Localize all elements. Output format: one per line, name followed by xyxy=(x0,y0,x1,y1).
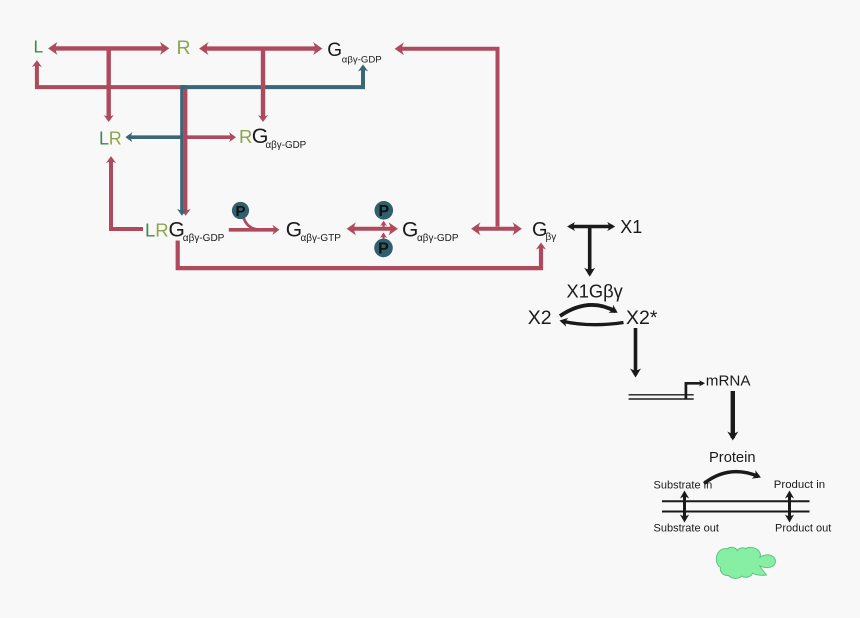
node: X1 xyxy=(620,217,642,237)
wire: small arrow from lower P xyxy=(382,234,384,238)
wire: black double arrow Gbg to X1 xyxy=(570,225,613,229)
wire: curved arrow X2 to X2* xyxy=(560,305,616,316)
svg-text:αβγ-GTP: αβγ-GTP xyxy=(301,233,342,244)
wire: curved arrow X2* to X2 xyxy=(562,321,624,325)
wire: red bottom path LRG to G-bg xyxy=(178,241,541,269)
svg-text:Protein: Protein xyxy=(709,450,756,466)
svg-text:P: P xyxy=(378,203,389,220)
svg-text:L: L xyxy=(99,129,109,149)
node: X1Gbg xyxy=(567,281,624,302)
svg-text:L: L xyxy=(145,220,155,241)
wire: small arrow to upper P xyxy=(383,223,385,229)
node: Protein xyxy=(709,450,756,466)
node: phosphate P3 lower xyxy=(374,239,393,258)
wire: curved arrow Substrate in to Product in xyxy=(704,472,759,484)
svg-text:mRNA: mRNA xyxy=(706,373,752,390)
node: X2* xyxy=(626,307,658,329)
node: LR xyxy=(99,129,122,149)
node: G-bg xyxy=(532,219,556,243)
node: LRG-abg-GDP xyxy=(145,219,225,244)
node: mRNA xyxy=(706,373,752,390)
wire: black vertical down to X1Gbg xyxy=(588,228,592,274)
svg-text:αβγ-GDP: αβγ-GDP xyxy=(417,233,459,244)
svg-text:αβγ-GDP: αβγ-GDP xyxy=(266,140,307,151)
svg-text:αβγ-GDP: αβγ-GDP xyxy=(342,54,382,65)
svg-text:R: R xyxy=(239,126,252,147)
wire: double arrow GDP to Gbg xyxy=(475,227,519,231)
wire: red vertical beside teal down to LRG xyxy=(184,87,188,213)
node: G-abg-GDP middle xyxy=(402,219,459,245)
node: phosphate P2 upper xyxy=(375,201,394,220)
node: G-abg-GTP xyxy=(286,219,341,245)
svg-text:P: P xyxy=(235,203,245,220)
node: Product in xyxy=(774,479,825,491)
wire: double arrow GTP to GDP xyxy=(350,227,395,231)
wire: substrate transport double arrow xyxy=(683,493,686,520)
svg-text:R: R xyxy=(109,129,122,149)
svg-text:P: P xyxy=(378,241,389,258)
wire: red vertical from R-G arrow down to RG xyxy=(261,50,265,120)
svg-text:X1Gβγ: X1Gβγ xyxy=(567,281,624,302)
node: gene double line xyxy=(629,395,694,399)
wire: arrow LRG to G-abg-GTP xyxy=(229,228,277,232)
wire: red elbow from LRG up to LR xyxy=(111,159,143,229)
node: Substrate in xyxy=(654,480,713,492)
svg-text:Substrate in: Substrate in xyxy=(654,480,713,492)
svg-text:Substrate out: Substrate out xyxy=(654,523,719,535)
svg-text:R: R xyxy=(155,220,168,241)
wire: double arrow R to G xyxy=(203,46,320,50)
wire: promoter bent arrow to mRNA xyxy=(686,383,703,399)
node: G-abg-GDP top xyxy=(327,40,381,66)
svg-text:R: R xyxy=(177,37,191,59)
wire: double arrow L to R xyxy=(52,46,166,50)
node: phosphate P1 xyxy=(232,202,249,220)
svg-text:X2: X2 xyxy=(528,307,552,329)
svg-text:βγ: βγ xyxy=(546,232,557,243)
wire: teal vertical arrow down to LRG xyxy=(180,85,184,213)
svg-text:G: G xyxy=(402,219,418,242)
wire: red vertical from L-R arrow down to LR xyxy=(106,50,110,120)
wire: curved link from P to GTP arrow xyxy=(244,218,262,230)
svg-text:Product out: Product out xyxy=(775,523,831,535)
wire: product transport double arrow xyxy=(788,493,791,520)
svg-text:Product in: Product in xyxy=(774,479,825,491)
svg-text:αβγ-GDP: αβγ-GDP xyxy=(183,233,225,244)
wire: red elbow from right down to GDP-Gbg arrow xyxy=(398,49,498,227)
wire: red arrow right into RG xyxy=(183,135,234,139)
node: X2 xyxy=(528,307,552,329)
svg-text:L: L xyxy=(34,37,44,57)
wire: black arrow X2* down to gene xyxy=(634,328,638,375)
wire: black arrow mRNA to Protein xyxy=(731,391,735,438)
node: Product out xyxy=(775,523,831,535)
svg-text:X2*: X2* xyxy=(626,307,658,329)
node: membrane double line xyxy=(662,501,810,511)
wire: teal arrow left into LR xyxy=(128,135,183,139)
svg-text:X1: X1 xyxy=(620,217,642,237)
node: ligand L xyxy=(34,37,44,57)
node: receptor R xyxy=(177,37,191,59)
wire: red elbow from junction up to L xyxy=(37,63,186,88)
svg-text:G: G xyxy=(327,40,342,61)
node: Substrate out xyxy=(654,523,719,535)
node: green blob xyxy=(716,547,775,578)
wire: teal horizontal with up arrow into G-abg-GDP xyxy=(183,67,363,87)
node: RG-abg-GDP xyxy=(239,124,307,151)
